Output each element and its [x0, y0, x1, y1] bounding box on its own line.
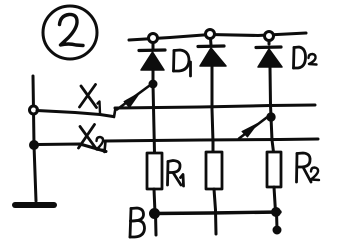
label X1 [80, 85, 101, 114]
wire: column 3 from diode to X2 tap dot [270, 67, 271, 117]
wire: column 1 from dot down to resistor R1 [153, 84, 155, 153]
wire: column 3 from resistor to bus [274, 187, 276, 212]
diode D2 (cathode up) [256, 41, 282, 68]
ground [15, 202, 54, 208]
terminal circle on rail, column 2 [206, 30, 215, 39]
terminal circle on rail, column 1 [149, 34, 158, 43]
wire: column 2 vertical down to resistor [212, 66, 213, 152]
figure number badge "2" [43, 6, 97, 59]
junction dot column 3 / switch X2 arrow [267, 113, 275, 121]
wire: column 1 stub below bus [154, 213, 158, 235]
label B [130, 208, 145, 237]
wire: column 1 from diode to X1 tap dot [152, 70, 155, 84]
wire X1: left segment from terminal to blade tip [37, 111, 113, 117]
junction dot X2 on left wire [30, 141, 39, 150]
label X2 [79, 125, 105, 151]
wire X2: main line to the right [105, 139, 318, 141]
left vertical wire [33, 76, 36, 201]
junction dot bus / column 3 [272, 208, 281, 217]
wire X2: left segment from dot to blade tip [38, 144, 106, 152]
wire: column 1 from resistor to bus [154, 189, 155, 213]
junction dot column 1 / switch X1 arrow [149, 80, 157, 88]
resistor middle [206, 152, 222, 189]
switch arrow X2 (to D2 column) [239, 115, 270, 139]
top supply rail [129, 33, 306, 40]
wire X2: blade tick [105, 141, 106, 152]
wire: column 2 from resistor through bus [214, 189, 216, 234]
junction dot bus / column 1 [150, 209, 160, 219]
wire X1: blade tick [114, 108, 116, 117]
bus wire B [154, 212, 280, 214]
wire X1: main line to the right [115, 105, 315, 108]
wire: column 3 from dot down to resistor [271, 117, 274, 152]
label R2 [297, 153, 320, 182]
resistor R2 [267, 152, 281, 187]
label R1 [168, 161, 184, 187]
terminal circle on rail, column 3 [265, 32, 274, 41]
label D2 [294, 47, 317, 68]
diode (middle, unlabeled, cathode up) [198, 39, 226, 67]
resistor R1 [147, 153, 162, 189]
switch arrow X1 (to D1 column) [117, 83, 153, 110]
wire: column 3 stub below bus with end dot [275, 212, 279, 229]
diode D1 (cathode up) [139, 43, 165, 71]
terminal circle X1 on left wire [30, 106, 38, 114]
label D1 [174, 50, 191, 76]
